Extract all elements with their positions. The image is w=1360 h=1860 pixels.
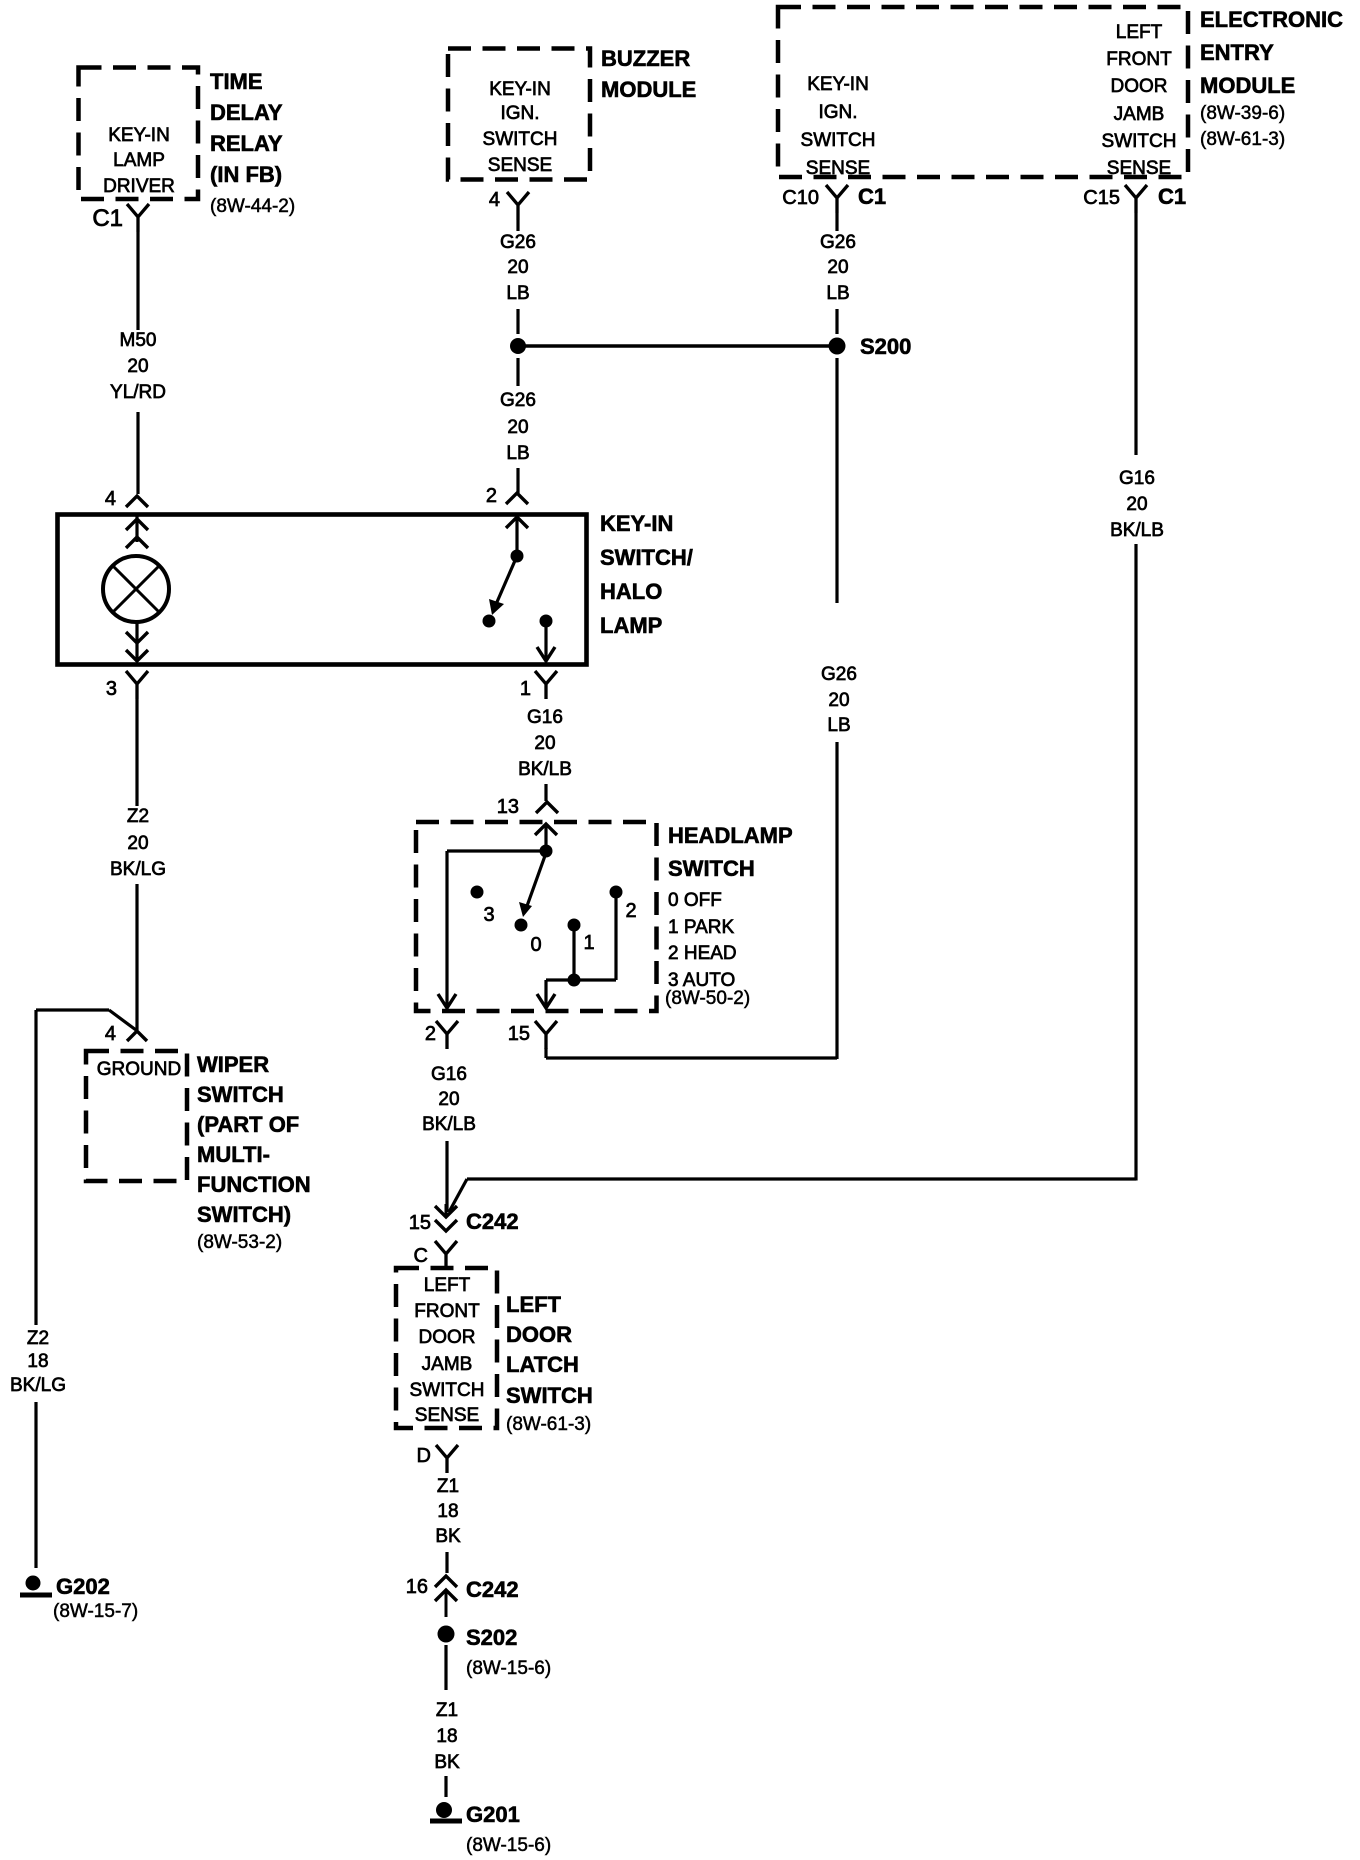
svg-text:20: 20	[827, 257, 848, 278]
svg-text:2: 2	[625, 900, 636, 922]
svg-text:(8W-15-6): (8W-15-6)	[466, 1835, 551, 1856]
svg-text:(8W-15-6): (8W-15-6)	[466, 1658, 551, 1679]
svg-text:20: 20	[438, 1089, 459, 1110]
svg-text:M50: M50	[120, 330, 157, 351]
svg-text:15: 15	[409, 1212, 431, 1234]
svg-text:FRONT: FRONT	[414, 1301, 480, 1322]
svg-text:2: 2	[425, 1023, 436, 1045]
svg-text:IGN.: IGN.	[500, 103, 539, 124]
svg-text:BK: BK	[435, 1526, 461, 1547]
svg-text:G26: G26	[820, 232, 856, 253]
svg-text:C1: C1	[92, 205, 123, 232]
svg-text:Z1: Z1	[436, 1700, 458, 1721]
svg-text:DOOR: DOOR	[419, 1327, 476, 1348]
svg-text:SWITCH: SWITCH	[410, 1380, 485, 1401]
svg-text:KEY-IN: KEY-IN	[600, 511, 673, 536]
svg-text:C: C	[414, 1245, 428, 1267]
svg-text:SWITCH: SWITCH	[801, 130, 876, 151]
svg-text:ENTRY: ENTRY	[1200, 40, 1274, 65]
svg-text:MODULE: MODULE	[601, 77, 696, 102]
svg-text:C1: C1	[858, 184, 886, 209]
svg-text:4: 4	[105, 488, 116, 510]
svg-text:4: 4	[489, 189, 500, 211]
svg-text:SENSE: SENSE	[488, 155, 552, 176]
svg-text:2: 2	[486, 485, 497, 507]
svg-text:1: 1	[520, 678, 531, 700]
svg-text:MULTI-: MULTI-	[197, 1142, 270, 1167]
svg-text:S202: S202	[466, 1625, 517, 1650]
svg-text:(8W-61-3): (8W-61-3)	[1200, 129, 1285, 150]
svg-text:20: 20	[507, 417, 528, 438]
svg-text:BK: BK	[434, 1752, 460, 1773]
svg-text:(8W-53-2): (8W-53-2)	[197, 1232, 282, 1253]
svg-text:1: 1	[583, 932, 594, 954]
svg-text:HEADLAMP: HEADLAMP	[668, 823, 793, 848]
svg-text:G26: G26	[821, 664, 857, 685]
svg-text:WIPER: WIPER	[197, 1052, 269, 1077]
svg-text:SENSE: SENSE	[806, 158, 870, 179]
svg-text:20: 20	[828, 690, 849, 711]
svg-text:20: 20	[507, 257, 528, 278]
svg-text:0: 0	[530, 934, 541, 956]
svg-text:(8W-61-3): (8W-61-3)	[506, 1414, 591, 1435]
svg-text:LB: LB	[827, 715, 850, 736]
svg-text:(8W-39-6): (8W-39-6)	[1200, 103, 1285, 124]
svg-text:SENSE: SENSE	[1107, 158, 1171, 179]
svg-text:JAMB: JAMB	[422, 1354, 473, 1375]
svg-text:Z1: Z1	[437, 1476, 459, 1497]
svg-text:4: 4	[105, 1023, 116, 1045]
svg-text:DRIVER: DRIVER	[103, 176, 175, 197]
svg-text:0 OFF: 0 OFF	[668, 890, 722, 911]
svg-text:FUNCTION: FUNCTION	[197, 1172, 311, 1197]
svg-text:G16: G16	[527, 707, 563, 728]
svg-text:FRONT: FRONT	[1106, 49, 1172, 70]
svg-text:20: 20	[127, 356, 148, 377]
svg-text:MODULE: MODULE	[1200, 73, 1295, 98]
svg-text:C10: C10	[782, 187, 819, 209]
svg-text:LEFT: LEFT	[424, 1275, 471, 1296]
svg-text:3: 3	[483, 904, 494, 926]
svg-text:HALO: HALO	[600, 579, 662, 604]
svg-text:YL/RD: YL/RD	[110, 382, 166, 403]
svg-text:SWITCH: SWITCH	[506, 1383, 593, 1408]
svg-text:SENSE: SENSE	[415, 1405, 479, 1426]
svg-text:SWITCH: SWITCH	[197, 1082, 284, 1107]
svg-text:KEY-IN: KEY-IN	[807, 74, 869, 95]
svg-text:20: 20	[534, 733, 555, 754]
svg-text:JAMB: JAMB	[1114, 104, 1165, 125]
svg-text:LAMP: LAMP	[113, 150, 165, 171]
svg-text:C15: C15	[1083, 187, 1120, 209]
svg-text:Z2: Z2	[127, 806, 149, 827]
svg-text:GROUND: GROUND	[97, 1059, 181, 1080]
svg-text:BK/LB: BK/LB	[422, 1114, 476, 1135]
svg-text:15: 15	[508, 1023, 530, 1045]
svg-text:SWITCH: SWITCH	[483, 129, 558, 150]
svg-text:SWITCH: SWITCH	[668, 856, 755, 881]
svg-text:D: D	[417, 1445, 431, 1467]
svg-text:(8W-50-2): (8W-50-2)	[665, 988, 750, 1009]
svg-text:18: 18	[437, 1501, 458, 1522]
svg-text:LEFT: LEFT	[506, 1292, 562, 1317]
svg-text:RELAY: RELAY	[210, 131, 283, 156]
svg-text:SWITCH): SWITCH)	[197, 1202, 291, 1227]
svg-text:C242: C242	[466, 1209, 519, 1234]
svg-text:G16: G16	[431, 1064, 467, 1085]
svg-text:BK/LG: BK/LG	[110, 859, 166, 880]
svg-text:BK/LB: BK/LB	[1110, 520, 1164, 541]
svg-text:(8W-44-2): (8W-44-2)	[210, 196, 295, 217]
svg-text:DOOR: DOOR	[1111, 76, 1168, 97]
svg-text:LAMP: LAMP	[600, 613, 662, 638]
svg-text:2 HEAD: 2 HEAD	[668, 943, 737, 964]
svg-text:(PART OF: (PART OF	[197, 1112, 299, 1137]
svg-text:G201: G201	[466, 1802, 520, 1827]
svg-text:ELECTRONIC: ELECTRONIC	[1200, 7, 1343, 32]
svg-text:Z2: Z2	[27, 1328, 49, 1349]
svg-text:1 PARK: 1 PARK	[668, 917, 735, 938]
svg-text:C242: C242	[466, 1577, 519, 1602]
svg-text:13: 13	[497, 796, 519, 818]
svg-text:LB: LB	[506, 443, 529, 464]
svg-text:KEY-IN: KEY-IN	[108, 125, 170, 146]
svg-text:BUZZER: BUZZER	[601, 46, 690, 71]
svg-text:TIME: TIME	[210, 69, 263, 94]
svg-text:G26: G26	[500, 232, 536, 253]
svg-text:DELAY: DELAY	[210, 100, 283, 125]
svg-text:SWITCH: SWITCH	[1102, 131, 1177, 152]
svg-text:LATCH: LATCH	[506, 1352, 579, 1377]
svg-text:DOOR: DOOR	[506, 1322, 572, 1347]
svg-text:LB: LB	[826, 283, 849, 304]
svg-text:3: 3	[106, 678, 117, 700]
svg-text:BK/LB: BK/LB	[518, 759, 572, 780]
svg-text:G202: G202	[56, 1574, 110, 1599]
svg-text:16: 16	[406, 1576, 428, 1598]
svg-text:LB: LB	[506, 283, 529, 304]
svg-text:(8W-15-7): (8W-15-7)	[53, 1601, 138, 1622]
svg-text:S200: S200	[860, 334, 911, 359]
svg-text:18: 18	[27, 1351, 48, 1372]
svg-text:IGN.: IGN.	[818, 102, 857, 123]
svg-text:G16: G16	[1119, 468, 1155, 489]
svg-text:(IN FB): (IN FB)	[210, 162, 282, 187]
svg-text:BK/LG: BK/LG	[10, 1375, 66, 1396]
svg-text:LEFT: LEFT	[1116, 22, 1163, 43]
svg-text:20: 20	[127, 833, 148, 854]
svg-text:20: 20	[1126, 494, 1147, 515]
svg-text:G26: G26	[500, 390, 536, 411]
svg-text:C1: C1	[1158, 184, 1186, 209]
svg-text:KEY-IN: KEY-IN	[489, 79, 551, 100]
svg-text:18: 18	[436, 1726, 457, 1747]
svg-text:SWITCH/: SWITCH/	[600, 545, 693, 570]
